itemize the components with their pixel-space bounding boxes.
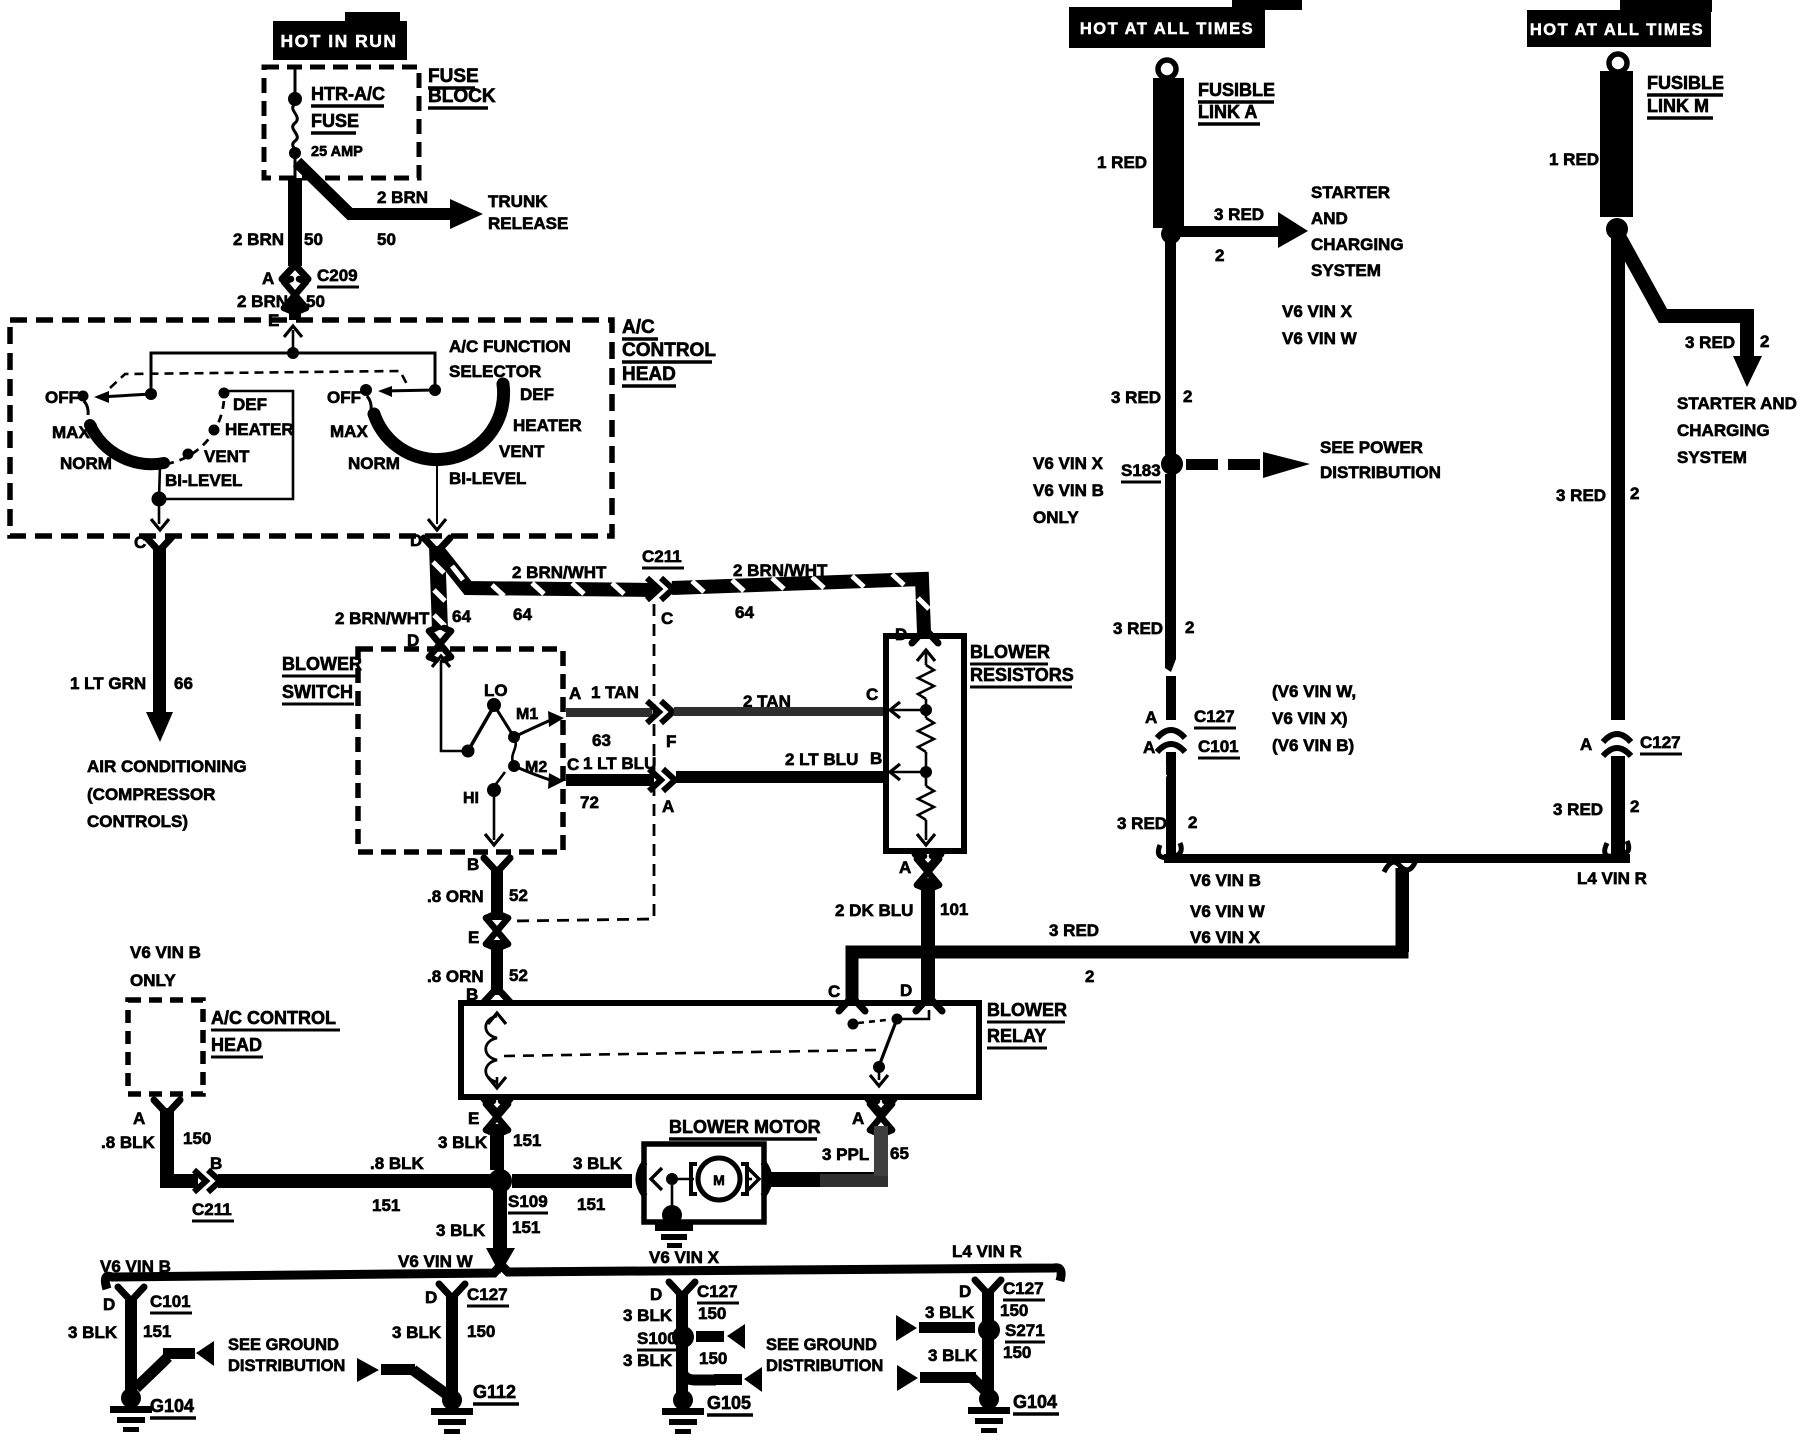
svg-text:HEAD: HEAD: [211, 1035, 262, 1055]
svg-text:2: 2: [1760, 332, 1769, 351]
svg-text:FUSE: FUSE: [428, 66, 479, 87]
svg-text:NORM: NORM: [60, 454, 112, 473]
svg-text:V6 VIN W: V6 VIN W: [1282, 329, 1358, 348]
svg-text:50: 50: [304, 230, 323, 249]
svg-text:C: C: [866, 685, 878, 704]
svg-text:3 PPL: 3 PPL: [822, 1145, 869, 1164]
svg-text:101: 101: [940, 900, 968, 919]
svg-text:V6 VIN B: V6 VIN B: [130, 943, 201, 962]
svg-text:2 BRN/WHT: 2 BRN/WHT: [512, 563, 607, 582]
svg-text:D: D: [900, 981, 912, 1000]
svg-text:.8 BLK: .8 BLK: [370, 1154, 425, 1173]
svg-text:64: 64: [735, 603, 754, 622]
svg-text:V6 VIN B: V6 VIN B: [1190, 871, 1261, 890]
svg-text:F: F: [666, 732, 676, 751]
svg-text:1 RED: 1 RED: [1097, 153, 1147, 172]
svg-text:V6 VIN W: V6 VIN W: [1190, 902, 1266, 921]
svg-text:L4 VIN R: L4 VIN R: [1577, 869, 1647, 888]
svg-text:52: 52: [509, 966, 528, 985]
svg-text:3 RED: 3 RED: [1556, 486, 1606, 505]
svg-text:G112: G112: [473, 1382, 516, 1402]
svg-text:3 BLK: 3 BLK: [436, 1221, 486, 1240]
svg-text:(COMPRESSOR: (COMPRESSOR: [87, 785, 215, 804]
svg-text:3 BLK: 3 BLK: [68, 1323, 118, 1342]
svg-text:SEE GROUND: SEE GROUND: [228, 1336, 339, 1354]
svg-text:SEE GROUND: SEE GROUND: [766, 1336, 877, 1354]
svg-text:BLOWER: BLOWER: [987, 1000, 1067, 1020]
svg-text:C209: C209: [317, 266, 358, 285]
svg-text:MAX: MAX: [52, 423, 90, 442]
svg-text:2: 2: [1630, 484, 1639, 503]
svg-text:1 LT GRN: 1 LT GRN: [70, 674, 146, 693]
svg-text:S271: S271: [1005, 1321, 1045, 1340]
svg-text:E: E: [468, 1109, 479, 1128]
svg-text:2 BRN: 2 BRN: [233, 230, 284, 249]
svg-text:.8 BLK: .8 BLK: [101, 1133, 156, 1152]
svg-text:151: 151: [372, 1196, 400, 1215]
svg-text:BLOWER: BLOWER: [282, 654, 362, 674]
svg-text:C211: C211: [192, 1200, 232, 1219]
svg-text:HTR-A/C: HTR-A/C: [311, 84, 385, 104]
svg-text:2 BRN/WHT: 2 BRN/WHT: [733, 561, 828, 580]
svg-text:L4 VIN R: L4 VIN R: [952, 1242, 1022, 1261]
svg-text:150: 150: [1003, 1343, 1031, 1362]
svg-text:DEF: DEF: [520, 385, 554, 404]
svg-text:150: 150: [698, 1304, 726, 1323]
svg-text:A: A: [262, 269, 274, 288]
svg-text:64: 64: [452, 607, 471, 626]
svg-text:3 RED: 3 RED: [1685, 333, 1735, 352]
svg-text:V6 VIN W: V6 VIN W: [398, 1252, 474, 1271]
svg-text:C101: C101: [1198, 737, 1239, 756]
svg-text:2: 2: [1183, 387, 1192, 406]
svg-text:CONTROLS): CONTROLS): [87, 812, 188, 831]
svg-text:72: 72: [580, 793, 599, 812]
svg-text:BLOWER MOTOR: BLOWER MOTOR: [669, 1117, 821, 1137]
svg-text:B: B: [467, 855, 479, 874]
svg-text:63: 63: [592, 731, 611, 750]
svg-text:NORM: NORM: [348, 454, 400, 473]
svg-text:151: 151: [143, 1322, 171, 1341]
svg-text:150: 150: [699, 1349, 727, 1368]
svg-text:D: D: [410, 531, 422, 550]
svg-text:150: 150: [183, 1129, 211, 1148]
svg-text:HEAD: HEAD: [622, 364, 676, 385]
svg-text:151: 151: [512, 1218, 540, 1237]
svg-text:151: 151: [513, 1131, 541, 1150]
svg-text:V6 VIN B: V6 VIN B: [100, 1257, 171, 1276]
svg-text:2: 2: [1185, 618, 1194, 637]
svg-text:A: A: [662, 797, 674, 816]
svg-text:MAX: MAX: [330, 422, 368, 441]
svg-text:2 BRN: 2 BRN: [377, 188, 428, 207]
svg-text:BI-LEVEL: BI-LEVEL: [165, 471, 242, 490]
svg-text:DEF: DEF: [233, 395, 267, 414]
svg-text:2: 2: [1085, 967, 1094, 986]
svg-text:3 RED: 3 RED: [1111, 388, 1161, 407]
svg-text:2: 2: [1630, 797, 1639, 816]
svg-text:C127: C127: [697, 1282, 738, 1301]
svg-text:150: 150: [1000, 1301, 1028, 1320]
svg-text:M1: M1: [516, 706, 538, 723]
svg-text:G104: G104: [150, 1396, 194, 1416]
svg-text:S183: S183: [1121, 461, 1161, 480]
svg-text:E: E: [468, 928, 479, 947]
svg-text:2 LT BLU: 2 LT BLU: [785, 750, 858, 769]
svg-text:2 BRN: 2 BRN: [237, 292, 288, 311]
svg-text:A: A: [1145, 708, 1157, 727]
svg-text:DISTRIBUTION: DISTRIBUTION: [1320, 463, 1441, 482]
svg-text:1 LT BLU: 1 LT BLU: [583, 754, 656, 773]
svg-text:SWITCH: SWITCH: [282, 682, 353, 702]
svg-text:3 BLK: 3 BLK: [925, 1303, 975, 1322]
svg-text:LINK A: LINK A: [1198, 102, 1257, 122]
svg-text:A: A: [1580, 735, 1592, 754]
svg-text:S100: S100: [637, 1329, 677, 1348]
svg-text:D: D: [103, 1295, 115, 1314]
svg-text:DISTRIBUTION: DISTRIBUTION: [228, 1357, 345, 1375]
svg-text:LO: LO: [484, 681, 508, 700]
svg-text:D: D: [425, 1288, 437, 1307]
svg-text:V6 VIN X: V6 VIN X: [1282, 302, 1353, 321]
svg-text:2 DK BLU: 2 DK BLU: [835, 901, 913, 920]
svg-text:.8 ORN: .8 ORN: [427, 967, 484, 986]
svg-text:(V6 VIN W,: (V6 VIN W,: [1272, 682, 1356, 701]
svg-text:OFF: OFF: [45, 388, 79, 407]
svg-text:3 BLK: 3 BLK: [438, 1133, 488, 1152]
svg-text:VENT: VENT: [499, 442, 545, 461]
svg-text:D: D: [650, 1285, 662, 1304]
svg-text:3 BLK: 3 BLK: [392, 1323, 442, 1342]
svg-text:C211: C211: [642, 547, 682, 566]
svg-text:BLOCK: BLOCK: [428, 86, 496, 107]
svg-text:ONLY: ONLY: [130, 971, 176, 990]
svg-text:LINK M: LINK M: [1647, 96, 1709, 116]
svg-text:D: D: [959, 1282, 971, 1301]
svg-text:150: 150: [467, 1322, 495, 1341]
svg-text:HOT AT ALL TIMES: HOT AT ALL TIMES: [1530, 21, 1704, 39]
svg-text:3 RED: 3 RED: [1553, 800, 1603, 819]
svg-text:C127: C127: [1194, 707, 1235, 726]
svg-text:AIR CONDITIONING: AIR CONDITIONING: [87, 757, 247, 776]
svg-text:1 RED: 1 RED: [1549, 150, 1599, 169]
svg-text:1 TAN: 1 TAN: [591, 683, 639, 702]
svg-text:A: A: [133, 1109, 145, 1128]
svg-text:3 BLK: 3 BLK: [928, 1346, 978, 1365]
svg-text:AND: AND: [1311, 209, 1348, 228]
svg-text:151: 151: [577, 1195, 605, 1214]
svg-text:C127: C127: [467, 1285, 508, 1304]
svg-text:A/C: A/C: [622, 317, 655, 338]
svg-text:3 RED: 3 RED: [1214, 205, 1264, 224]
svg-text:FUSE: FUSE: [311, 111, 359, 131]
svg-text:C: C: [567, 755, 579, 774]
svg-text:A: A: [852, 1109, 864, 1128]
svg-text:V6 VIN X: V6 VIN X: [1033, 454, 1104, 473]
svg-text:3 RED: 3 RED: [1113, 619, 1163, 638]
svg-text:25 AMP: 25 AMP: [311, 144, 363, 160]
svg-text:CHARGING: CHARGING: [1677, 421, 1770, 440]
svg-text:HEATER: HEATER: [513, 416, 582, 435]
svg-text:HOT IN RUN: HOT IN RUN: [280, 31, 397, 51]
svg-text:.8 ORN: .8 ORN: [427, 887, 484, 906]
svg-text:SYSTEM: SYSTEM: [1677, 448, 1747, 467]
svg-text:A/C CONTROL: A/C CONTROL: [211, 1008, 336, 1028]
svg-text:ONLY: ONLY: [1033, 508, 1079, 527]
svg-text:V6 VIN X): V6 VIN X): [1272, 709, 1348, 728]
svg-text:S109: S109: [508, 1192, 548, 1211]
svg-text:BLOWER: BLOWER: [970, 642, 1050, 662]
svg-text:A/C FUNCTION: A/C FUNCTION: [449, 337, 571, 356]
svg-text:SELECTOR: SELECTOR: [449, 362, 541, 381]
svg-text:RELAY: RELAY: [987, 1026, 1046, 1046]
svg-text:G105: G105: [707, 1393, 751, 1413]
svg-text:SEE POWER: SEE POWER: [1320, 438, 1423, 457]
svg-text:66: 66: [174, 674, 193, 693]
svg-text:C101: C101: [150, 1292, 191, 1311]
svg-text:3 BLK: 3 BLK: [623, 1306, 673, 1325]
svg-text:CONTROL: CONTROL: [622, 340, 716, 361]
svg-text:STARTER AND: STARTER AND: [1677, 394, 1797, 413]
svg-text:A: A: [1143, 738, 1155, 757]
svg-text:3 BLK: 3 BLK: [623, 1351, 673, 1370]
svg-text:B: B: [870, 749, 882, 768]
svg-text:3 RED: 3 RED: [1117, 814, 1167, 833]
svg-text:BI-LEVEL: BI-LEVEL: [449, 469, 526, 488]
svg-text:A: A: [899, 858, 911, 877]
svg-text:FUSIBLE: FUSIBLE: [1647, 73, 1724, 93]
svg-text:HEATER: HEATER: [225, 420, 294, 439]
svg-text:2 BRN/WHT: 2 BRN/WHT: [335, 609, 430, 628]
svg-text:C127: C127: [1640, 733, 1681, 752]
svg-text:50: 50: [377, 230, 396, 249]
svg-text:2: 2: [1188, 813, 1197, 832]
svg-text:RELEASE: RELEASE: [488, 214, 568, 233]
svg-text:G104: G104: [1013, 1392, 1057, 1412]
svg-text:SYSTEM: SYSTEM: [1311, 261, 1381, 280]
svg-text:V6 VIN B: V6 VIN B: [1033, 481, 1104, 500]
svg-text:3 RED: 3 RED: [1049, 921, 1099, 940]
svg-text:RESISTORS: RESISTORS: [970, 665, 1074, 685]
svg-text:OFF: OFF: [327, 388, 361, 407]
svg-text:50: 50: [306, 292, 325, 311]
svg-text:TRUNK: TRUNK: [488, 192, 548, 211]
svg-text:C: C: [661, 609, 673, 628]
svg-text:DISTRIBUTION: DISTRIBUTION: [766, 1357, 883, 1375]
svg-text:V6 VIN X: V6 VIN X: [649, 1248, 720, 1267]
svg-text:V6 VIN X: V6 VIN X: [1190, 928, 1261, 947]
svg-text:(V6 VIN B): (V6 VIN B): [1272, 736, 1354, 755]
svg-text:STARTER: STARTER: [1311, 183, 1390, 202]
svg-text:C: C: [828, 982, 840, 1001]
svg-text:CHARGING: CHARGING: [1311, 235, 1404, 254]
svg-text:FUSIBLE: FUSIBLE: [1198, 80, 1275, 100]
svg-text:3 BLK: 3 BLK: [573, 1154, 623, 1173]
svg-text:M: M: [713, 1172, 725, 1188]
svg-text:C127: C127: [1003, 1279, 1044, 1298]
svg-text:A: A: [569, 684, 581, 703]
svg-text:HI: HI: [463, 790, 479, 807]
svg-text:HOT AT ALL TIMES: HOT AT ALL TIMES: [1080, 20, 1254, 38]
svg-text:65: 65: [890, 1144, 909, 1163]
svg-text:VENT: VENT: [204, 447, 250, 466]
svg-text:64: 64: [513, 605, 532, 624]
svg-text:2: 2: [1215, 246, 1224, 265]
svg-text:52: 52: [509, 886, 528, 905]
